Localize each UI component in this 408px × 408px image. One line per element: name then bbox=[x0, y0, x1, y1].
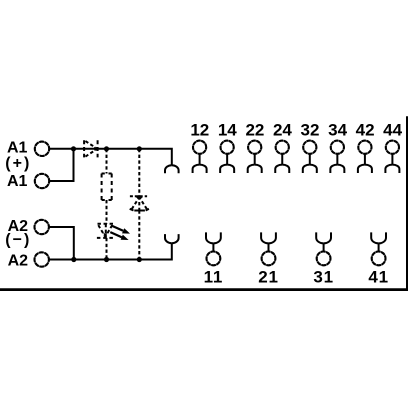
diode D1 (series, dashed) bbox=[84, 140, 98, 157]
zener diode V2 (dashed, pointing up) bbox=[130, 196, 148, 210]
wire A2 top link bbox=[49, 227, 74, 260]
svg-text:42: 42 bbox=[356, 121, 375, 140]
terminal A2 bottom circle bbox=[35, 252, 49, 266]
node junction dot bottom 3 bbox=[137, 257, 142, 262]
wire resistor to LED (dashed) bbox=[106, 200, 108, 224]
terminal 14 bbox=[218, 121, 237, 173]
node junction dot top 3 bbox=[137, 146, 142, 151]
terminal 24 bbox=[273, 121, 292, 173]
svg-text:A1: A1 bbox=[7, 173, 28, 190]
wire zener branch upper (dashed) bbox=[138, 149, 140, 196]
terminal 22 bbox=[245, 121, 264, 173]
terminal 34 bbox=[328, 121, 347, 173]
svg-text:41: 41 bbox=[368, 268, 389, 287]
terminal A1 top circle bbox=[35, 142, 49, 156]
terminal 42 bbox=[356, 121, 375, 173]
terminal 41 bbox=[368, 232, 389, 286]
terminal A2 top circle bbox=[35, 220, 49, 234]
terminal 12 bbox=[190, 121, 209, 173]
relay coil socket bottom bbox=[165, 234, 172, 243]
relay coil socket top bbox=[165, 165, 172, 173]
svg-text:44: 44 bbox=[383, 121, 402, 140]
LED arrow 2 bbox=[110, 232, 128, 240]
resistor R1 (dashed) bbox=[102, 174, 112, 201]
svg-text:14: 14 bbox=[218, 121, 237, 140]
svg-text:(−): (−) bbox=[5, 231, 31, 248]
wire top rail A1 to coil bbox=[49, 149, 172, 165]
node junction dot top 1 bbox=[71, 146, 76, 151]
wire zener to bottom rail (dashed) bbox=[138, 210, 140, 259]
terminal 31 bbox=[313, 232, 334, 286]
LED V1 (dashed, pointing down) bbox=[97, 224, 113, 238]
node junction dot bottom 2 bbox=[104, 257, 109, 262]
wire A1 bottom link bbox=[49, 149, 73, 181]
terminal 11 bbox=[204, 232, 224, 286]
wire resistor branch upper (dashed) bbox=[106, 149, 108, 174]
terminal 32 bbox=[301, 121, 320, 173]
svg-text:(+): (+) bbox=[5, 155, 31, 172]
svg-text:21: 21 bbox=[258, 268, 279, 287]
terminal 21 bbox=[258, 232, 279, 286]
svg-text:A2: A2 bbox=[8, 252, 29, 269]
svg-text:24: 24 bbox=[273, 121, 292, 140]
border bottom edge bbox=[0, 288, 408, 291]
node junction dot top 2 bbox=[104, 146, 109, 151]
border right edge bbox=[406, 116, 408, 290]
terminal A1 bottom circle bbox=[35, 174, 49, 188]
svg-text:11: 11 bbox=[204, 268, 224, 287]
wire bottom rail A2 to coil bbox=[49, 243, 172, 259]
svg-text:32: 32 bbox=[301, 121, 320, 140]
wire LED to bottom rail (dashed) bbox=[106, 238, 108, 260]
svg-text:31: 31 bbox=[313, 268, 334, 287]
node junction dot bottom 1 bbox=[71, 257, 76, 262]
svg-text:22: 22 bbox=[245, 121, 264, 140]
terminal 44 bbox=[383, 121, 402, 173]
svg-text:12: 12 bbox=[190, 121, 209, 140]
svg-text:34: 34 bbox=[328, 121, 347, 140]
LED arrow 1 bbox=[112, 226, 130, 234]
